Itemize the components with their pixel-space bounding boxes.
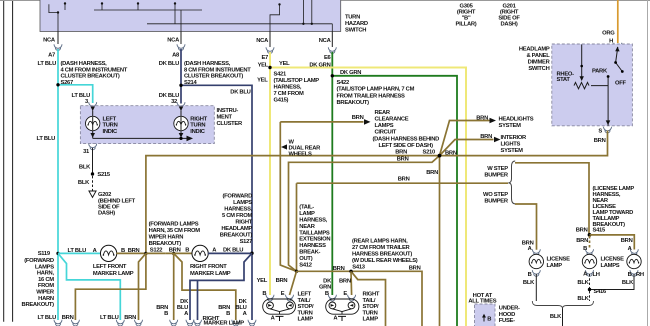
- svg-text:A: A: [184, 311, 189, 317]
- svg-text:LEFT: LEFT: [298, 292, 312, 298]
- svg-text:BRN: BRN: [409, 266, 421, 272]
- svg-text:LT BLU: LT BLU: [38, 315, 57, 321]
- svg-text:BREAKOUT): BREAKOUT): [149, 241, 182, 247]
- svg-text:(DASH HARNESS,: (DASH HARNESS,: [184, 61, 231, 67]
- svg-text:FROM TRAILER HARNESS: FROM TRAILER HARNESS: [337, 93, 406, 99]
- svg-text:TURN: TURN: [363, 310, 378, 316]
- svg-text:BREAKOUT): BREAKOUT): [22, 302, 55, 308]
- svg-text:HARNESS: HARNESS: [299, 243, 326, 249]
- svg-text:B: B: [628, 272, 632, 278]
- svg-text:SWITCH: SWITCH: [345, 27, 366, 33]
- svg-text:S210: S210: [423, 150, 435, 156]
- svg-text:DK BLU: DK BLU: [159, 61, 179, 67]
- svg-text:YEL: YEL: [258, 62, 269, 68]
- svg-text:LT BLU: LT BLU: [68, 248, 87, 254]
- svg-text:(FORWARD: (FORWARD: [24, 258, 54, 264]
- svg-text:BRN: BRN: [426, 170, 438, 176]
- svg-text:BRN: BRN: [169, 248, 181, 254]
- svg-text:CLUSTER: CLUSTER: [217, 121, 244, 127]
- svg-text:RIGHT FRONT: RIGHT FRONT: [190, 264, 227, 270]
- svg-text:HEADLAMP: HEADLAMP: [221, 226, 252, 232]
- svg-text:BRN: BRN: [594, 138, 606, 144]
- svg-text:STOP/: STOP/: [363, 304, 380, 310]
- svg-text:BRN: BRN: [352, 115, 364, 121]
- svg-text:HARNESS,: HARNESS,: [299, 218, 327, 224]
- svg-text:5 CM FROM: 5 CM FROM: [222, 213, 252, 219]
- svg-text:(FORWARD: (FORWARD: [222, 194, 252, 200]
- svg-text:BRN: BRN: [576, 227, 588, 233]
- svg-text:TAIL/: TAIL/: [363, 298, 376, 304]
- svg-text:BREAKOUT): BREAKOUT): [337, 100, 370, 106]
- svg-text:DK BLU: DK BLU: [230, 90, 250, 96]
- svg-text:YEL: YEL: [257, 278, 268, 284]
- svg-text:LT BLU: LT BLU: [100, 315, 119, 321]
- svg-text:TAILLAMPS: TAILLAMPS: [299, 230, 330, 236]
- svg-text:BRN: BRN: [476, 115, 488, 121]
- svg-text:REAR: REAR: [375, 110, 391, 116]
- svg-text:EXTENSION: EXTENSION: [299, 237, 330, 243]
- svg-text:HARNESS,: HARNESS,: [224, 207, 252, 213]
- svg-text:BRN: BRN: [398, 177, 410, 183]
- svg-text:MARKER LAMP: MARKER LAMP: [190, 271, 231, 277]
- svg-text:SWITCH: SWITCH: [528, 66, 549, 72]
- svg-text:BREAKOUT): BREAKOUT): [220, 233, 253, 239]
- svg-text:LT BLU: LT BLU: [37, 136, 56, 142]
- svg-text:B: B: [325, 291, 329, 297]
- svg-text:LAMP: LAMP: [363, 317, 379, 323]
- svg-text:B: B: [528, 272, 532, 278]
- svg-text:NCA: NCA: [256, 38, 269, 44]
- svg-text:FUSE-: FUSE-: [499, 318, 515, 324]
- svg-text:RIGHT: RIGHT: [363, 292, 380, 298]
- svg-text:LIGHTS: LIGHTS: [501, 142, 521, 148]
- svg-text:B: B: [226, 311, 230, 317]
- svg-text:YEL: YEL: [279, 61, 290, 67]
- svg-text:BRN: BRN: [480, 134, 492, 140]
- svg-text:NCA: NCA: [43, 37, 56, 43]
- svg-text:INDIC: INDIC: [103, 129, 118, 135]
- svg-text:S421: S421: [274, 71, 287, 77]
- svg-text:LEFT: LEFT: [103, 116, 117, 122]
- svg-text:NCA: NCA: [167, 37, 180, 43]
- svg-text:(TAIL-: (TAIL-: [299, 205, 314, 211]
- svg-text:SYSTEM: SYSTEM: [501, 148, 524, 154]
- svg-text:NEAR: NEAR: [299, 224, 315, 230]
- svg-text:HEADLAMP: HEADLAMP: [519, 47, 550, 53]
- svg-text:LICENSE: LICENSE: [547, 256, 571, 262]
- svg-text:E6: E6: [324, 55, 332, 61]
- svg-text:YEL: YEL: [257, 78, 268, 84]
- svg-text:GRN: GRN: [319, 285, 331, 291]
- svg-text:CIRCUIT: CIRCUIT: [375, 130, 397, 136]
- svg-text:G415): G415): [274, 97, 289, 103]
- svg-text:32: 32: [171, 99, 177, 105]
- svg-text:DASH): DASH): [98, 211, 115, 217]
- svg-text:S412: S412: [299, 262, 311, 268]
- svg-text:BRN: BRN: [339, 278, 351, 284]
- svg-text:E: E: [343, 291, 347, 297]
- svg-text:SIDE OF: SIDE OF: [98, 205, 120, 211]
- svg-text:LEFT SIDE OF DASH): LEFT SIDE OF DASH): [379, 143, 434, 149]
- svg-text:BRN: BRN: [333, 266, 345, 272]
- svg-text:S415: S415: [593, 227, 606, 233]
- svg-text:UNDER-: UNDER-: [499, 306, 520, 312]
- svg-text:TURN: TURN: [190, 123, 205, 129]
- svg-text:B: B: [487, 317, 491, 323]
- svg-text:(DASH HARNESS,: (DASH HARNESS,: [61, 61, 108, 67]
- svg-text:DK: DK: [323, 278, 332, 284]
- svg-text:B: B: [185, 248, 189, 254]
- svg-text:STOP/: STOP/: [298, 304, 315, 310]
- svg-text:(BEHIND LEFT: (BEHIND LEFT: [98, 198, 136, 204]
- svg-text:B: B: [583, 246, 587, 252]
- svg-text:CLUSTER BREAKOUT): CLUSTER BREAKOUT): [61, 74, 120, 80]
- svg-text:BRN: BRN: [62, 315, 74, 321]
- svg-text:HEADLIGHTS: HEADLIGHTS: [499, 116, 534, 122]
- svg-text:DIMMER: DIMMER: [528, 60, 551, 66]
- svg-text:S413: S413: [352, 264, 365, 270]
- svg-text:OFF: OFF: [615, 81, 626, 87]
- svg-text:MARKER LAMP: MARKER LAMP: [204, 321, 245, 326]
- svg-text:WIPER: WIPER: [36, 290, 55, 296]
- svg-text:RIGHT: RIGHT: [235, 220, 252, 226]
- svg-text:LAMPS: LAMPS: [375, 123, 394, 129]
- svg-text:RH: RH: [636, 272, 644, 278]
- svg-text:DK GRN: DK GRN: [340, 70, 361, 76]
- svg-text:BRN: BRN: [445, 151, 457, 157]
- svg-text:BRN: BRN: [124, 315, 136, 321]
- svg-text:BLK: BLK: [523, 280, 535, 286]
- svg-text:BLK: BLK: [577, 280, 589, 286]
- svg-text:CLUSTER BREAKOUT): CLUSTER BREAKOUT): [184, 74, 243, 80]
- svg-text:FROM: FROM: [38, 283, 54, 289]
- svg-text:A: A: [271, 316, 276, 322]
- svg-text:PARK: PARK: [592, 68, 608, 74]
- svg-text:SYSTEM: SYSTEM: [499, 123, 522, 129]
- svg-text:27 CM FROM TRAILER: 27 CM FROM TRAILER: [352, 245, 411, 251]
- svg-text:BLK: BLK: [622, 280, 634, 286]
- svg-text:TURN: TURN: [298, 310, 313, 316]
- svg-text:BLK: BLK: [79, 165, 91, 171]
- svg-text:BUMPER: BUMPER: [484, 173, 509, 179]
- svg-text:W STEP: W STEP: [487, 166, 508, 172]
- svg-text:BRN: BRN: [576, 238, 588, 244]
- svg-text:STAT: STAT: [557, 77, 571, 83]
- svg-text:BRN: BRN: [397, 156, 409, 162]
- svg-text:LAMP: LAMP: [298, 317, 314, 323]
- svg-text:BRN: BRN: [395, 150, 407, 156]
- svg-text:BRN: BRN: [621, 238, 633, 244]
- svg-text:B: B: [262, 291, 266, 297]
- svg-text:LAMP: LAMP: [299, 211, 315, 217]
- svg-text:S422: S422: [337, 80, 349, 86]
- svg-text:A: A: [333, 316, 338, 322]
- svg-text:8 CM FROM INSTRUMENT: 8 CM FROM INSTRUMENT: [184, 67, 251, 73]
- svg-text:LAMPS: LAMPS: [601, 263, 620, 269]
- svg-text:S127: S127: [240, 239, 252, 245]
- svg-text:(FORWARD LAMPS: (FORWARD LAMPS: [149, 222, 199, 228]
- svg-text:BRN: BRN: [276, 278, 288, 284]
- svg-text:HAZARD: HAZARD: [345, 21, 368, 27]
- svg-text:7 CM FROM: 7 CM FROM: [274, 91, 304, 97]
- svg-text:A7: A7: [48, 53, 55, 59]
- svg-text:BREAK-: BREAK-: [299, 250, 320, 256]
- svg-text:WHEELS: WHEELS: [289, 152, 313, 158]
- svg-text:MENT: MENT: [217, 115, 233, 121]
- svg-text:(W DUEL REAR WHEELS): (W DUEL REAR WHEELS): [352, 258, 418, 264]
- svg-text:& PANEL: & PANEL: [526, 53, 550, 59]
- svg-text:HARNESS,: HARNESS,: [274, 84, 302, 90]
- svg-text:HOOD: HOOD: [499, 312, 515, 318]
- svg-text:G202: G202: [98, 192, 111, 198]
- svg-text:LEFT FRONT: LEFT FRONT: [93, 264, 127, 270]
- svg-text:B: B: [164, 311, 168, 317]
- svg-text:(DASH HARNESS BEHIND: (DASH HARNESS BEHIND: [373, 137, 440, 143]
- svg-text:(REAR LAMPS HARN,: (REAR LAMPS HARN,: [352, 239, 408, 245]
- svg-text:HARN: HARN: [38, 296, 54, 302]
- svg-text:LT BLU: LT BLU: [38, 61, 57, 67]
- svg-text:E: E: [281, 291, 285, 297]
- svg-text:HARN,: HARN,: [37, 271, 55, 277]
- svg-text:BUMPER: BUMPER: [484, 199, 509, 205]
- svg-text:LAMPS: LAMPS: [233, 200, 252, 206]
- svg-text:CLEARANCE: CLEARANCE: [375, 117, 409, 123]
- svg-text:LAMPS: LAMPS: [35, 264, 54, 270]
- svg-text:LAMP: LAMP: [547, 263, 563, 269]
- svg-text:INSTRU-: INSTRU-: [217, 108, 239, 114]
- svg-text:ORG: ORG: [602, 31, 615, 37]
- svg-text:S215: S215: [97, 172, 110, 178]
- svg-text:S416: S416: [594, 289, 607, 295]
- svg-text:3: 3: [85, 99, 89, 105]
- svg-text:BLK: BLK: [577, 296, 589, 302]
- svg-text:RIGHT: RIGHT: [190, 116, 207, 122]
- svg-text:MARKER LAMP: MARKER LAMP: [93, 271, 134, 277]
- svg-text:TURN: TURN: [345, 14, 360, 20]
- svg-text:A: A: [528, 246, 533, 252]
- svg-text:HARN, 35 CM FROM: HARN, 35 CM FROM: [149, 228, 201, 234]
- svg-text:16 CM: 16 CM: [38, 277, 54, 283]
- svg-text:DASH): DASH): [501, 22, 518, 28]
- svg-text:A8: A8: [172, 53, 180, 59]
- svg-text:PILLAR): PILLAR): [456, 22, 477, 28]
- svg-text:31: 31: [83, 149, 90, 155]
- svg-text:NCA: NCA: [319, 38, 332, 44]
- svg-text:LICENSE: LICENSE: [601, 256, 625, 262]
- svg-text:BLK: BLK: [78, 180, 90, 186]
- svg-text:INDIC: INDIC: [190, 129, 205, 135]
- svg-text:TAIL/: TAIL/: [298, 298, 311, 304]
- svg-text:A: A: [628, 246, 633, 252]
- svg-text:S122: S122: [150, 247, 162, 253]
- svg-text:TURN: TURN: [103, 123, 118, 129]
- svg-text:BLK: BLK: [550, 314, 562, 320]
- svg-text:A: A: [243, 311, 248, 317]
- svg-text:S119: S119: [38, 251, 51, 257]
- svg-text:HARNESS BREAKOUT): HARNESS BREAKOUT): [352, 252, 412, 258]
- svg-text:(TAIL/STOP LAMP HARN, 7 CM: (TAIL/STOP LAMP HARN, 7 CM: [337, 87, 415, 93]
- svg-text:WO STEP: WO STEP: [483, 192, 508, 198]
- svg-text:4 CM FROM INSTRUMENT: 4 CM FROM INSTRUMENT: [61, 67, 128, 73]
- svg-text:E7: E7: [261, 55, 268, 61]
- svg-text:LH: LH: [593, 272, 600, 278]
- svg-text:OUT): OUT): [299, 256, 312, 262]
- svg-text:(TAIL/STOP LAMP: (TAIL/STOP LAMP: [274, 78, 320, 84]
- svg-text:WIPER HARN: WIPER HARN: [149, 234, 184, 240]
- svg-text:S: S: [598, 129, 602, 135]
- svg-text:INTERIOR: INTERIOR: [501, 135, 528, 141]
